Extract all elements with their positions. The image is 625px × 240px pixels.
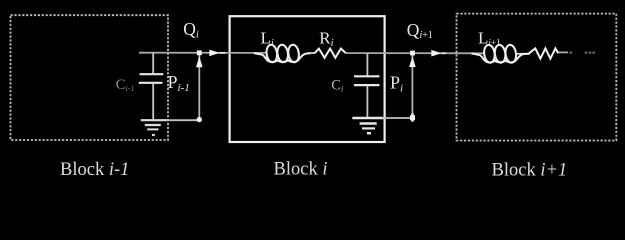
block i solid box [230, 16, 385, 142]
resistor Ri zigzag [307, 52, 315, 54]
ground (block i-1) [141, 120, 168, 135]
inductor Li coil loops [254, 44, 311, 63]
wire ground to node Pi [382, 117, 413, 119]
wire Pi probe vertical [411, 55, 413, 118]
capacitor C(i-1) bottom lead [152, 84, 154, 120]
ellipsis continuation dots [570, 51, 596, 54]
node at ground Pi [410, 114, 415, 122]
arrow up at node Qi [196, 56, 203, 67]
block i-1 dashed box [11, 15, 169, 140]
wire ground to node P(i-1) [166, 119, 199, 121]
resistor right zigzag [528, 48, 558, 58]
node Qi+1 junction dot [410, 51, 415, 56]
capacitor C(i-1) plates [140, 73, 164, 75]
capacitor Ci plates [354, 75, 380, 77]
wire P(i-1) probe vertical [198, 55, 200, 120]
capacitor Ci bottom lead [366, 86, 368, 117]
wire between resistor Ri and block i+1 coil [346, 52, 484, 54]
ground (block i) [352, 118, 383, 133]
wire between coil Li+1 and right resistor [516, 53, 530, 55]
svg-text:Block i+1: Block i+1 [492, 161, 568, 181]
wire main horizontal from block i-1 through block i [139, 52, 266, 54]
node Qi junction dot [197, 50, 202, 55]
wire stub after right resistor [558, 51, 568, 53]
svg-text:Block i: Block i [274, 160, 328, 180]
capacitor C(i-1) top lead [152, 53, 154, 74]
arrow right on wire into block i [209, 50, 219, 57]
capacitor Ci top lead [366, 53, 368, 75]
arrow up at node Qi+1 [409, 56, 416, 67]
node at ground P(i-1) [197, 117, 202, 122]
arrow right on wire into block i+1 [431, 50, 441, 57]
svg-text:Block i-1: Block i-1 [60, 160, 129, 180]
block i+1 dashed box [457, 14, 617, 141]
inductor Li+1 coil loops [472, 44, 528, 63]
